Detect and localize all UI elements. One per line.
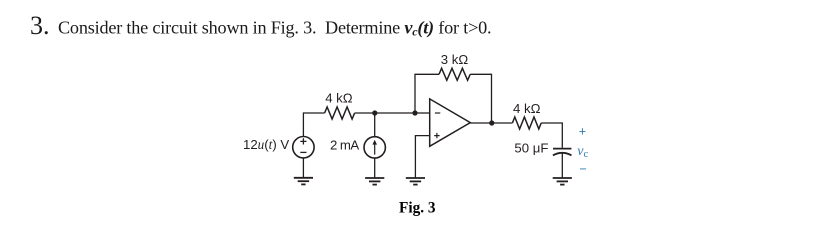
wire op-amp noninverting input to ground [415,136,429,178]
svg-text:Consider the circuit shown in: Consider the circuit shown in Fig. 3. De… [58,18,491,39]
wire node A down to current source [374,113,376,137]
ground below I1 [365,178,384,185]
voltage source V1 12u(t) V [293,137,314,158]
feedback wire to output node [470,74,491,123]
resistor R2 3 kOhm (feedback) [439,68,470,80]
wire R1 to node A [355,112,415,114]
wire capacitor to ground [561,153,563,178]
svg-text:3 kΩ: 3 kΩ [441,52,469,67]
resistor R3 4 kOhm (output) [512,117,541,129]
svg-text:12u(t) V: 12u(t) V [243,137,289,152]
svg-text:−: − [580,162,587,176]
problem statement text [30,11,491,40]
node A junction dot [372,110,377,115]
ground below op-amp + input [406,178,425,185]
svg-text:2 mA: 2 mA [330,137,359,152]
op-amp output wire to node C [470,122,512,124]
node C junction dot (output) [489,120,494,125]
node B junction dot (inverting input node) [412,110,417,115]
capacitor C1 50 uF [553,149,572,156]
wire R3 to capacitor [541,123,562,148]
wire V1 top to rail [303,113,324,137]
wire node B to op-amp inverting input [415,112,430,114]
svg-text:4 kΩ: 4 kΩ [513,101,541,116]
svg-text:Fig. 3: Fig. 3 [399,199,436,216]
ground below capacitor [553,178,572,185]
svg-text:vc: vc [577,144,588,160]
wire V1 bottom to ground [302,158,304,178]
current source I1 2 mA [364,137,385,158]
svg-text:3.: 3. [30,11,50,40]
svg-text:+: + [579,125,586,139]
svg-text:50 μF: 50 μF [514,140,548,155]
wire I1 bottom to ground [374,158,376,178]
resistor R1 4 kOhm (input) [325,107,355,119]
feedback riser wire node B up [415,74,439,113]
op-amp U1 [430,99,471,146]
svg-text:4 kΩ: 4 kΩ [325,91,353,106]
ground below V1 [294,178,313,185]
